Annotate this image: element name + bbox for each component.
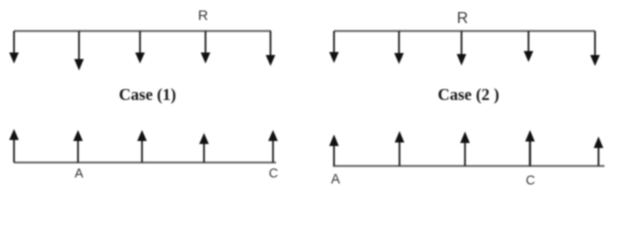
load arrow down 4 (case 1) bbox=[201, 31, 211, 64]
reaction arrow up 4 (case 2) bbox=[525, 130, 535, 166]
wire: case 2 top load line bbox=[334, 30, 595, 32]
reaction arrow up 3 (case 2) bbox=[460, 132, 470, 167]
wire: case 1 top load line bbox=[14, 30, 271, 32]
load arrow down 1 (case 2) bbox=[329, 31, 339, 63]
reaction arrow up 2 (case 2) bbox=[395, 131, 405, 166]
load arrow down 1 (case 1) bbox=[9, 31, 19, 64]
wire: case 1 bottom reaction line bbox=[14, 162, 276, 164]
reaction arrow up 1 (case 2) bbox=[329, 135, 339, 167]
svg-text:C: C bbox=[269, 166, 278, 181]
svg-text:Case (1): Case (1) bbox=[119, 85, 176, 104]
load arrow down 5 (case 2) bbox=[590, 31, 600, 66]
svg-text:R: R bbox=[457, 10, 468, 27]
reaction arrow up 2 (case 1) bbox=[73, 130, 83, 163]
svg-text:C: C bbox=[526, 173, 535, 188]
reaction arrow up 3 (case 1) bbox=[137, 130, 147, 163]
load arrow down 3 (case 2) bbox=[457, 31, 467, 66]
load arrow down 5 (case 1) bbox=[266, 31, 276, 66]
svg-text:Case (2 ): Case (2 ) bbox=[438, 85, 499, 104]
load arrow down 4 (case 2) bbox=[524, 31, 534, 62]
load arrow down 2 (case 1) bbox=[74, 31, 84, 71]
reaction arrow up 4 (case 1) bbox=[199, 133, 209, 163]
svg-text:A: A bbox=[75, 166, 84, 181]
reaction arrow up 5 (case 1) bbox=[268, 130, 278, 163]
reaction arrow up 1 (case 1) bbox=[9, 129, 19, 163]
wire: case 2 bottom reaction line bbox=[333, 165, 605, 167]
load arrow down 3 (case 1) bbox=[135, 31, 145, 64]
reaction arrow up 5 (case 2) bbox=[594, 137, 604, 167]
svg-text:A: A bbox=[331, 172, 340, 187]
svg-text:R: R bbox=[198, 7, 208, 23]
load arrow down 2 (case 2) bbox=[394, 31, 404, 64]
